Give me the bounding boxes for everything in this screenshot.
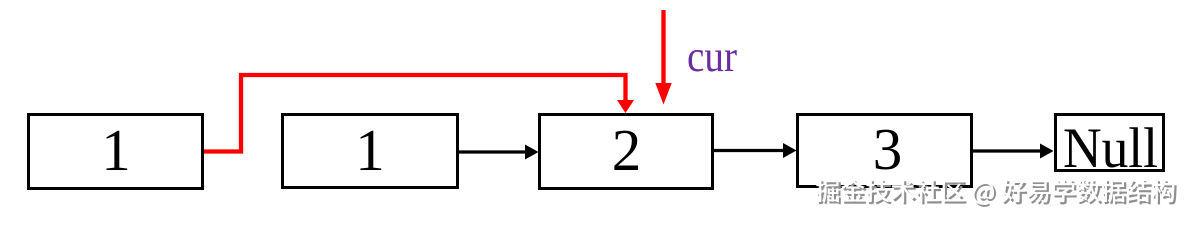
wire black arrow box3 to Null (973, 144, 1054, 159)
red cur pointer arrow (655, 10, 671, 105)
node box Null (1056, 115, 1164, 181)
svg-text:cur: cur (687, 32, 737, 81)
svg-text:1: 1 (101, 117, 131, 183)
node box 2 (540, 115, 713, 189)
label cur (687, 32, 737, 81)
wire red elbow from box1 to box2 top (204, 75, 634, 152)
svg-text:Null: Null (1063, 117, 1158, 180)
svg-text:2: 2 (612, 117, 642, 183)
svg-text:1: 1 (355, 117, 385, 183)
svg-text:3: 3 (873, 116, 903, 182)
node box 1 (second) (283, 115, 458, 188)
watermark white layer (816, 179, 1174, 205)
wire black arrow box2 to box3 (714, 143, 797, 158)
watermark shadow layer (818, 181, 1176, 207)
node box 3 (798, 115, 972, 187)
wire black arrow box1b to box2 (459, 145, 539, 160)
node box 1 (first) (29, 115, 203, 189)
